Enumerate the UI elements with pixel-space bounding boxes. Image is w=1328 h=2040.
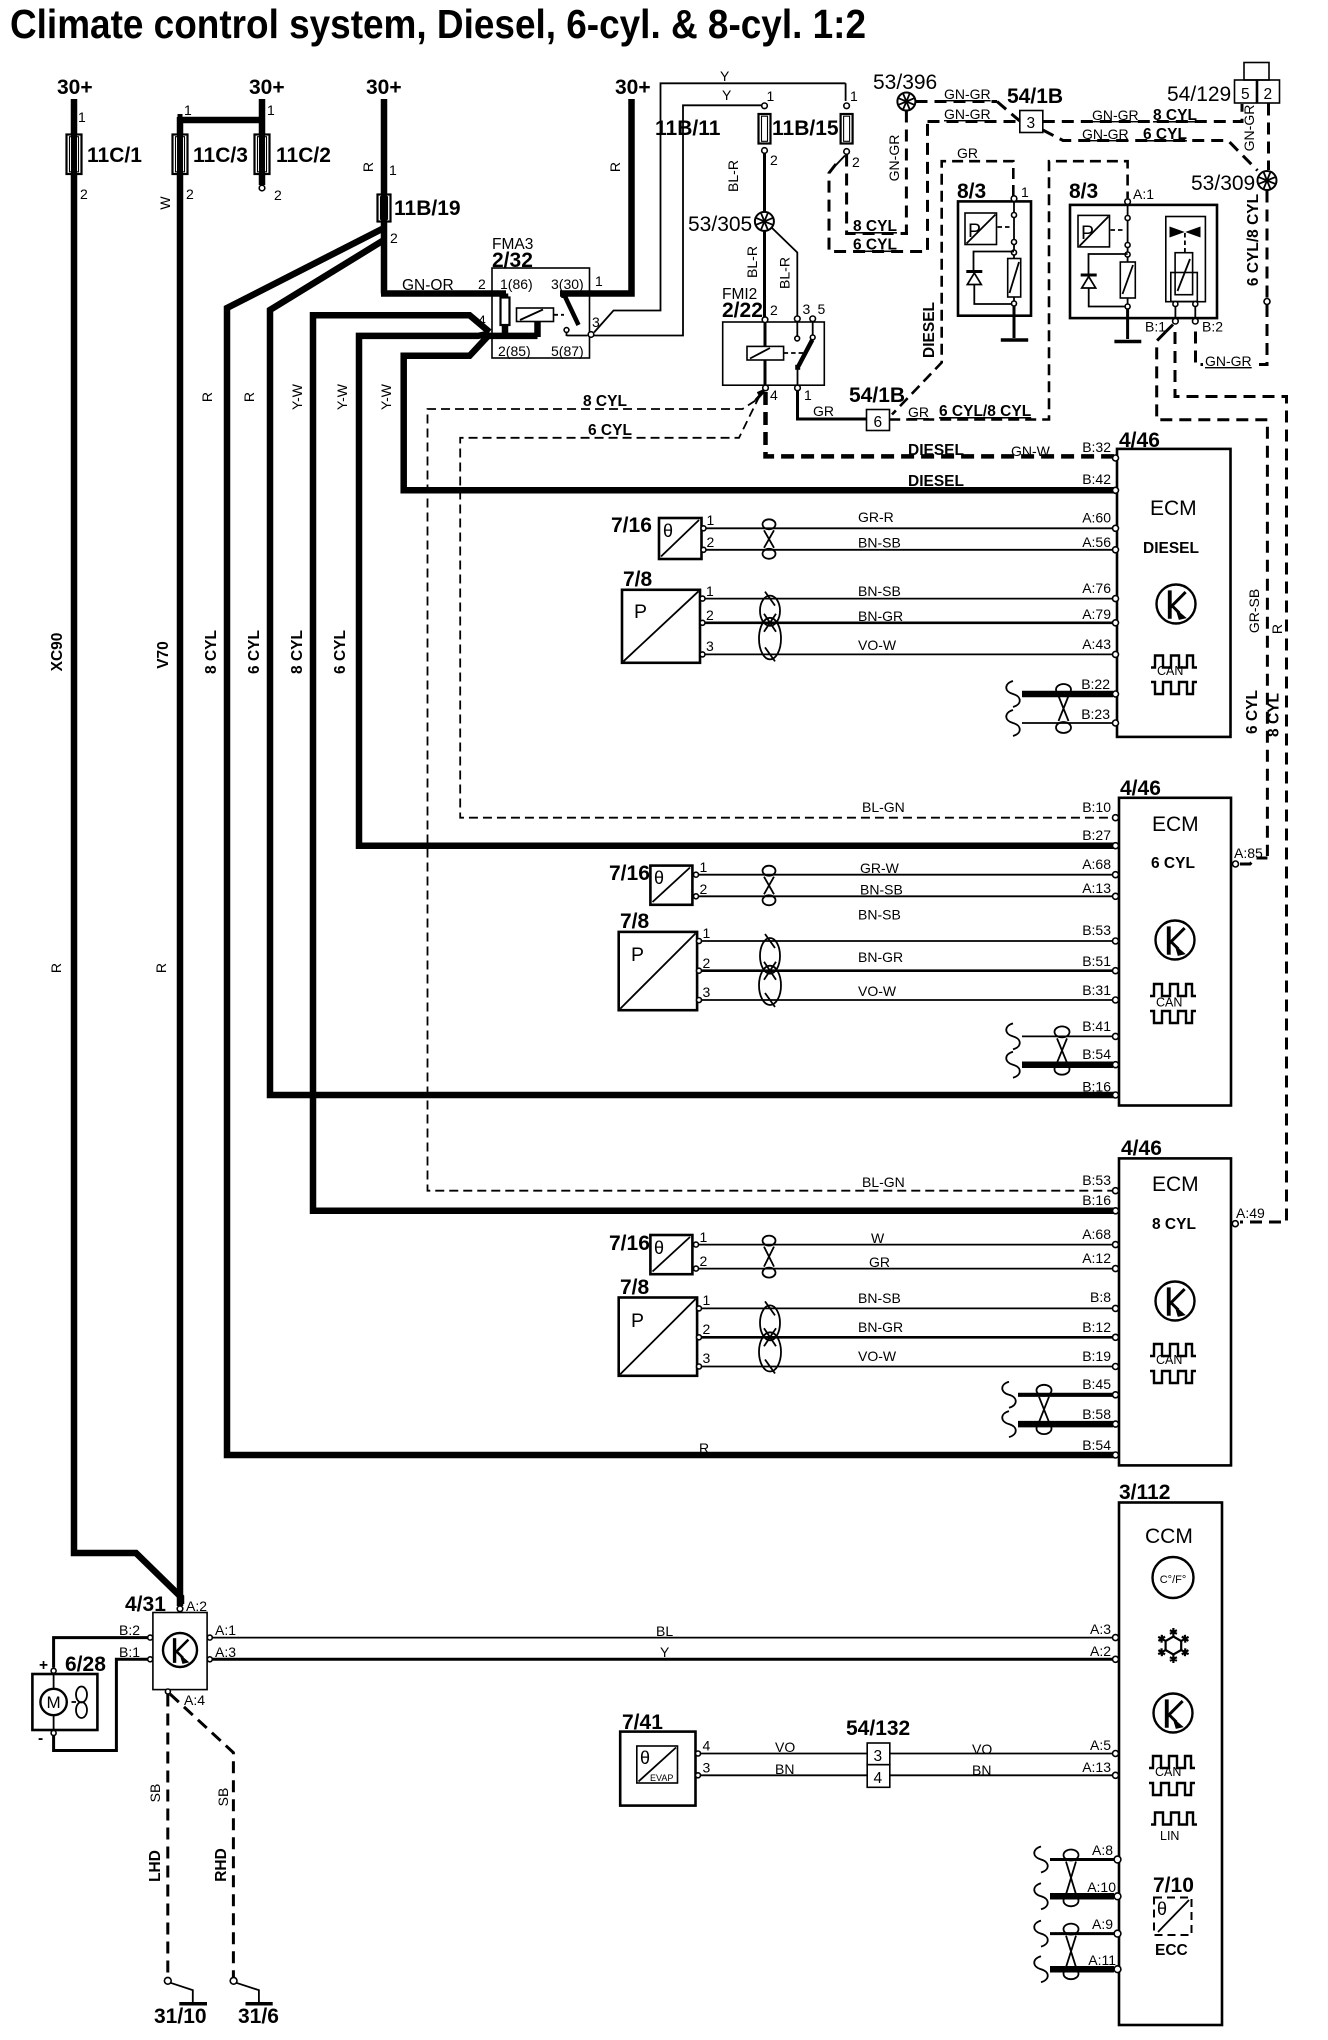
wire Y-W 6CYL: FMA3 pin 4 to ECM 6CYL B:27: [359, 334, 1114, 846]
svg-text:8 CYL: 8 CYL: [203, 630, 220, 674]
svg-text:11B/19: 11B/19: [394, 197, 461, 220]
svg-text:6 CYL: 6 CYL: [1151, 855, 1195, 872]
svg-text:1: 1: [595, 273, 603, 289]
pin B:19 of ECM 8cyl: [1113, 1364, 1119, 1370]
pin B:23 of ECM diesel: [1113, 720, 1119, 726]
svg-text:B:12: B:12: [1082, 1319, 1111, 1335]
8/3 clutch coil: [1120, 262, 1135, 298]
relay FMA3 switch contact: [564, 328, 569, 333]
svg-text:2: 2: [390, 230, 398, 246]
svg-text:5(87): 5(87): [551, 343, 584, 359]
svg-text:A:2: A:2: [186, 1598, 207, 1614]
relay FMA3 coil body: [534, 322, 541, 338]
svg-text:2: 2: [1264, 86, 1273, 103]
pin B:32 of ECM diesel: [1113, 455, 1119, 461]
svg-text:6 CYL: 6 CYL: [853, 237, 897, 254]
svg-text:Y: Y: [720, 68, 730, 84]
pin A:3 of 4/31: [207, 1657, 212, 1662]
relay FMA3 actuator dashed link: [554, 314, 565, 316]
FMI2 pin 3: [795, 316, 801, 322]
svg-text:53/309: 53/309: [1191, 172, 1255, 195]
svg-text:1: 1: [700, 1229, 708, 1245]
svg-text:2(85): 2(85): [498, 343, 531, 359]
pin B:54 of ECM 8cyl: [1113, 1452, 1119, 1458]
pin A:5 of CCM: [1113, 1751, 1119, 1757]
pin B:8 of ECM 8cyl: [1113, 1305, 1119, 1311]
svg-text:R: R: [153, 963, 169, 973]
svg-text:1: 1: [184, 102, 192, 118]
svg-text:B:8: B:8: [1090, 1289, 1111, 1305]
svg-text:A:10: A:10: [1087, 1879, 1116, 1895]
svg-text:3: 3: [874, 1748, 883, 1765]
svg-text:30+: 30+: [249, 76, 285, 99]
svg-text:2/22: 2/22: [722, 299, 763, 322]
svg-text:1: 1: [707, 512, 715, 528]
svg-text:30+: 30+: [615, 76, 651, 99]
svg-text:6 CYL: 6 CYL: [588, 422, 632, 439]
svg-text:1: 1: [700, 859, 708, 875]
LIN symbol in CCM: [1151, 1813, 1197, 1825]
wire GN-GR 8 CYL dashed from 54/1B-3 to 54/129: [1043, 104, 1242, 122]
wire SB LHD dashed from 4/31 A:4 to ground 31/10: [166, 1695, 169, 1978]
wire VO from 54/132 to CCM A:5: [890, 1753, 1113, 1755]
svg-text:2: 2: [186, 186, 194, 202]
svg-text:1: 1: [389, 162, 397, 178]
relay FMA3 switch blade: [561, 294, 568, 299]
svg-text:RHD: RHD: [213, 1848, 230, 1882]
svg-text:A:49: A:49: [1236, 1205, 1265, 1221]
pin B:1 of 8/3: [1173, 318, 1179, 324]
svg-text:2: 2: [707, 534, 715, 550]
svg-text:GN-GR: GN-GR: [944, 86, 991, 102]
svg-text:3: 3: [1027, 115, 1036, 132]
wire GN-GR 6 CYL dashed from 54/1B-3 to splice 53/309: [1043, 130, 1258, 171]
fan control module 4/31 box: [153, 1613, 207, 1690]
motor M symbol in 6/28: [53, 1674, 55, 1689]
svg-text:BL: BL: [656, 1623, 673, 1639]
wire GR from FMI2 pin 1 to connector 54/1B-6: [798, 391, 867, 419]
svg-text:A:68: A:68: [1082, 1226, 1111, 1242]
immobiliser symbol in ECM diesel: [1157, 585, 1196, 624]
svg-text:A:76: A:76: [1082, 580, 1111, 596]
svg-text:B:54: B:54: [1082, 1437, 1111, 1453]
svg-text:R: R: [699, 1440, 709, 1456]
pin A:49 of ECM 8cyl: [1232, 1221, 1238, 1227]
svg-text:BL-R: BL-R: [777, 257, 793, 289]
svg-text:θ: θ: [640, 1748, 650, 1768]
svg-text:GR: GR: [957, 145, 978, 161]
svg-text:2: 2: [700, 1253, 708, 1269]
immobiliser symbol in CCM: [1154, 1694, 1193, 1733]
svg-text:B:45: B:45: [1082, 1376, 1111, 1392]
svg-text:1: 1: [706, 583, 714, 599]
svg-text:BL-GN: BL-GN: [862, 1174, 905, 1190]
svg-text:ECC: ECC: [1155, 1942, 1188, 1959]
svg-text:54/1B: 54/1B: [1007, 85, 1063, 108]
pin 3 of 7/41: [696, 1773, 701, 1778]
8/3 ground lead: [1126, 309, 1129, 339]
svg-text:SB: SB: [147, 1784, 163, 1803]
svg-text:B:51: B:51: [1082, 953, 1111, 969]
svg-text:XC90: XC90: [49, 633, 66, 672]
svg-text:11C/2: 11C/2: [276, 144, 331, 167]
svg-text:6/28: 6/28: [65, 1653, 106, 1676]
svg-text:31/10: 31/10: [154, 2005, 207, 2028]
power stage symbol in 4/31: [163, 1633, 197, 1667]
8/3 internal wire and pins: [1127, 204, 1129, 262]
svg-text:B:16: B:16: [1082, 1192, 1111, 1208]
svg-text:VO-W: VO-W: [858, 637, 897, 653]
svg-text:A:60: A:60: [1082, 510, 1111, 526]
wire BN-SB from 7/8 to ECM diesel A:76: [705, 598, 1113, 600]
svg-text:11C/1: 11C/1: [87, 144, 142, 167]
svg-text:EVAP: EVAP: [650, 1773, 673, 1783]
wire stub to CCM A:11: [1034, 1956, 1048, 1982]
svg-text:3: 3: [703, 984, 711, 1000]
svg-text:5: 5: [818, 301, 826, 317]
wire CAN stub to ECM 6cyl B:41: [1006, 1023, 1020, 1049]
pin B:16 of ECM 6cyl: [1113, 1092, 1119, 1098]
svg-text:3: 3: [703, 1760, 711, 1776]
fuse 11B/19: [378, 195, 391, 222]
svg-text:A:11: A:11: [1088, 1952, 1116, 1968]
svg-text:A:4: A:4: [184, 1692, 205, 1708]
8/3 solenoid valve assembly: [1166, 217, 1206, 302]
wire BN-SB from 7/8 to ECM 6cyl B:53: [702, 940, 1114, 942]
svg-text:30+: 30+: [57, 76, 93, 99]
svg-text:BN-SB: BN-SB: [858, 1290, 901, 1306]
svg-text:2: 2: [770, 302, 778, 318]
pin B:1 of 4/31: [148, 1657, 153, 1662]
wire 30+ rail 3 (R) into fuse 11B/19: [381, 99, 388, 194]
svg-text:BN-GR: BN-GR: [858, 1319, 903, 1335]
connector 54/1B terminal 3: [1020, 111, 1043, 133]
svg-text:Climate control system, Diesel: Climate control system, Diesel, 6-cyl. &…: [10, 1, 866, 47]
svg-text:3/112: 3/112: [1119, 1481, 1170, 1504]
ground terminal 31/10: [164, 1977, 171, 1984]
pin B:41 of ECM 6cyl: [1113, 1033, 1119, 1039]
pin A:68 of ECM 6cyl: [1113, 872, 1119, 878]
pin A:3 of CCM: [1113, 1635, 1119, 1641]
svg-text:A:68: A:68: [1082, 856, 1111, 872]
svg-text:ECM: ECM: [1150, 497, 1197, 520]
pin B:53 of ECM 6cyl: [1113, 938, 1119, 944]
8/3 pressure sensor: [1078, 215, 1110, 247]
svg-text:GR: GR: [813, 403, 834, 419]
dashed GR supply into 8/3 6cyl/8cyl from 54/1B-6: [889, 161, 1127, 419]
pin 4 of 7/41: [696, 1751, 701, 1756]
fuse 11C/3: [173, 135, 188, 175]
wire VO from 7/41 to 54/132: [701, 1753, 868, 1755]
svg-text:2: 2: [852, 154, 860, 170]
svg-text:θ: θ: [654, 868, 664, 888]
svg-text:LIN: LIN: [1160, 1829, 1179, 1843]
svg-text:7/16: 7/16: [609, 1232, 650, 1255]
svg-text:θ: θ: [654, 1238, 664, 1258]
fan blade symbol in 6/28: [72, 1701, 77, 1703]
svg-text:3(30): 3(30): [551, 276, 584, 292]
wire BN-SB from 7/16 to ECM 6cyl A:13: [699, 895, 1114, 897]
fuse 11C/2: [255, 135, 270, 175]
svg-text:P: P: [631, 944, 644, 966]
wire BN-GR from 7/8 to ECM diesel A:79: [705, 621, 1113, 624]
twisted pair 7/16 8cyl: [763, 1236, 776, 1246]
wire stub right of 53/396: [915, 100, 927, 103]
FMI2 switch blade from pin 5: [812, 322, 814, 335]
wire R/8CYL dashed from B:1 to ECM 8CYL A:49: [1175, 332, 1287, 1222]
pin B:16 of ECM 8cyl: [1113, 1208, 1119, 1214]
wire BN-GR from 7/8 to ECM 8cyl B:12: [702, 1336, 1114, 1339]
twisted pair CAN at ECM 6cyl: [1055, 1026, 1070, 1037]
svg-text:GN-W: GN-W: [1011, 443, 1051, 459]
wire 8 CYL dashed from 11B/15 pin 2 via 53/396: [847, 155, 908, 234]
svg-text:53/305: 53/305: [688, 213, 752, 236]
svg-text:1: 1: [267, 102, 275, 118]
wire Y from FMA3 pin 3 to fuse 11B/15: [594, 83, 846, 332]
svg-text:A:5: A:5: [1090, 1737, 1111, 1753]
svg-text:R: R: [48, 963, 64, 973]
svg-text:DIESEL: DIESEL: [921, 302, 938, 358]
svg-text:1: 1: [703, 925, 711, 941]
8/3 diesel suppression diode: [974, 252, 1015, 272]
pin B:54 of ECM 6cyl: [1113, 1062, 1119, 1068]
svg-text:A:85: A:85: [1234, 845, 1263, 861]
pin A:13 of ECM 6cyl: [1113, 893, 1119, 899]
svg-text:BN: BN: [775, 1761, 794, 1777]
wire GN-GR dashed lower branch into 54/1B-3: [928, 120, 1020, 123]
svg-text:P: P: [631, 1310, 644, 1332]
svg-text:8 CYL: 8 CYL: [289, 630, 306, 674]
svg-text:θ: θ: [1157, 1899, 1167, 1919]
svg-text:-: -: [38, 1730, 43, 1747]
pin B:2 of 4/31: [148, 1635, 153, 1640]
svg-text:CAN: CAN: [1156, 996, 1182, 1010]
svg-text:R: R: [1269, 624, 1285, 634]
svg-text:54/129: 54/129: [1167, 83, 1231, 106]
wire CAN stub to ECM 8cyl B:45: [1002, 1382, 1016, 1408]
FMI2 pin 5: [810, 316, 816, 322]
svg-text:1: 1: [703, 1292, 711, 1308]
wire 4-input to relay FMA3 pin 4: [488, 333, 538, 340]
svg-text:B:1: B:1: [1145, 319, 1166, 335]
svg-text:8 CYL: 8 CYL: [1152, 1216, 1196, 1233]
svg-text:B:2: B:2: [1202, 319, 1223, 335]
6/28 - terminal: [51, 1731, 56, 1736]
svg-text:A:3: A:3: [1090, 1621, 1111, 1637]
svg-text:BN-GR: BN-GR: [858, 949, 903, 965]
wire VO-W from 7/8 to ECM diesel A:43: [705, 653, 1113, 655]
svg-text:GN-GR: GN-GR: [1205, 353, 1252, 369]
pin A:13 of CCM: [1113, 1772, 1119, 1778]
FMI2 pin 4: [763, 385, 769, 391]
pin B:53 of ECM 8cyl: [1113, 1188, 1119, 1194]
ground at 8/3 compressor: [1114, 340, 1141, 344]
pin B:51 of ECM 6cyl: [1113, 968, 1119, 974]
svg-text:A:8: A:8: [1092, 1842, 1113, 1858]
svg-text:1(86): 1(86): [500, 276, 533, 292]
ground terminal 31/6: [230, 1977, 237, 1984]
svg-text:A:12: A:12: [1082, 1250, 1111, 1266]
wire GR-R from 7/16 to ECM diesel A:60: [706, 527, 1113, 529]
svg-text:B:27: B:27: [1082, 827, 1111, 843]
svg-text:4/46: 4/46: [1121, 1137, 1162, 1160]
wire from 4/31 B:2 to fan motor 6/28 +: [54, 1638, 148, 1668]
svg-text:BL-GN: BL-GN: [862, 799, 905, 815]
svg-text:B:31: B:31: [1082, 982, 1111, 998]
pin A:9 of CCM: [1114, 1930, 1121, 1937]
svg-text:Y-W: Y-W: [289, 383, 305, 410]
wire GR-SB/6CYL dashed from B:1 to ECM 6CYL A:85: [1157, 332, 1268, 856]
svg-text:CAN: CAN: [1156, 1353, 1182, 1367]
pin A:56 of ECM diesel: [1113, 547, 1119, 553]
CAN symbol in ECM diesel: [1151, 656, 1197, 668]
8/3 valve pins to B:1 B:2: [1173, 302, 1178, 307]
svg-text:GR-SB: GR-SB: [1246, 589, 1262, 633]
svg-text:3: 3: [706, 638, 714, 654]
fuse 11C/1: [67, 135, 82, 175]
8/3 diesel ground lead: [1013, 306, 1016, 338]
fuse 11B/11: [762, 103, 768, 109]
svg-text:M: M: [47, 1693, 61, 1712]
svg-text:7/8: 7/8: [620, 1276, 650, 1299]
svg-text:8 CYL: 8 CYL: [583, 393, 627, 410]
svg-text:6 CYL: 6 CYL: [1244, 690, 1261, 734]
relay FMA3 coil branch: [502, 294, 509, 337]
svg-text:R: R: [199, 392, 215, 402]
svg-text:53/396: 53/396: [873, 71, 937, 94]
svg-text:11B/15: 11B/15: [772, 117, 839, 140]
svg-text:DIESEL: DIESEL: [1143, 540, 1199, 557]
svg-text:VO: VO: [775, 1739, 795, 1755]
svg-text:A:79: A:79: [1082, 606, 1111, 622]
relay FMA3 2/32 box: [492, 268, 590, 358]
wire VO-W from 7/8 to ECM 8cyl B:19: [702, 1366, 1114, 1368]
svg-text:1: 1: [804, 387, 812, 403]
svg-text:2: 2: [478, 276, 486, 292]
svg-text:7/16: 7/16: [611, 514, 652, 537]
svg-text:B:16: B:16: [1082, 1079, 1111, 1095]
wire V70 rail from fuse 11C/3 down to 4/31 A:2: [177, 174, 184, 1606]
svg-text:BL-R: BL-R: [744, 246, 760, 278]
svg-text:W: W: [871, 1230, 885, 1246]
pin B:45 of ECM 8cyl: [1113, 1392, 1119, 1398]
FMI2 pin 1: [795, 385, 801, 391]
twisted pair at CCM A:9/A:11: [1064, 1924, 1079, 1935]
C/F temperature icon in CCM: [1153, 1557, 1194, 1598]
wire DIESEL dashed from FMI2 pin 4 to ECM diesel B:32 (GN-W): [766, 392, 1115, 456]
twisted pair CAN at ECM diesel: [1056, 684, 1071, 695]
8/3 diesel internal wire and pins: [1013, 201, 1015, 258]
pin A:43 of ECM diesel: [1113, 651, 1119, 657]
svg-text:8/3: 8/3: [1069, 180, 1098, 203]
pin B:58 of ECM 8cyl: [1113, 1421, 1119, 1427]
pin A:60 of ECM diesel: [1113, 525, 1119, 531]
svg-text:CAN: CAN: [1157, 664, 1183, 678]
wire SB RHD dashed from 4/31 A:4 to ground 31/6: [170, 1694, 233, 1977]
svg-text:3: 3: [703, 1350, 711, 1366]
8/3 pin A:1: [1125, 199, 1131, 205]
wire from 11B/19 pin 2 down to GN-OR relay feed: [381, 221, 388, 294]
twisted bundle 7/8 6cyl: [760, 938, 780, 974]
svg-text:B:53: B:53: [1082, 1172, 1111, 1188]
svg-text:31/6: 31/6: [238, 2005, 279, 2028]
svg-text:GR: GR: [869, 1254, 890, 1270]
pin A:12 of ECM 8cyl: [1113, 1266, 1119, 1272]
svg-text:11C/3: 11C/3: [193, 144, 248, 167]
pin A:79 of ECM diesel: [1113, 620, 1119, 626]
svg-text:GN-GR: GN-GR: [1092, 107, 1139, 123]
wire Y-W 8CYL: FMA3 pin 4 to ECM 8CYL B:16: [313, 315, 1114, 1211]
twisted pair at CCM A:8/A:10: [1064, 1850, 1079, 1861]
svg-text:V70: V70: [155, 641, 172, 669]
svg-text:7/16: 7/16: [609, 862, 650, 885]
svg-text:GN-GR: GN-GR: [1082, 126, 1129, 142]
wire 30+ rail 2 feed bar to fuses 11C/3 and 11C/2: [259, 99, 266, 134]
svg-text:8 CYL: 8 CYL: [1153, 107, 1197, 124]
svg-text:A:13: A:13: [1082, 1759, 1111, 1775]
wire 8 CYL R: 11B/19 pin2 to ECM 8CYL B:54: [227, 228, 1114, 1455]
wire VO-W from 7/8 to ECM 6cyl B:31: [702, 999, 1114, 1001]
svg-text:Y-W: Y-W: [378, 383, 394, 410]
wire 30+ rail 1 (R, XC90) down to fan relay 4/31: [74, 99, 181, 1604]
twisted pair 7/16 6cyl: [763, 866, 776, 876]
6/28 + terminal: [51, 1668, 56, 1673]
FMI2 contact from pin 3: [796, 322, 798, 336]
wire GN-GR dashed 6CYL/8CYL from 53/309 down: [1266, 191, 1269, 299]
svg-text:B:32: B:32: [1082, 439, 1111, 455]
svg-text:P: P: [634, 601, 647, 623]
snowflake A/C icon in CCM: [1166, 1637, 1182, 1655]
svg-text:2: 2: [80, 186, 88, 202]
svg-text:1: 1: [850, 88, 858, 104]
wire GR from 7/16 to ECM 8cyl A:12: [699, 1268, 1114, 1270]
FMI2 pin 2: [762, 317, 768, 323]
svg-text:A:1: A:1: [1133, 186, 1154, 202]
svg-text:54/132: 54/132: [846, 1717, 910, 1740]
wire BL-R from 53/305 to FMI2 coil pin 2: [763, 231, 766, 317]
svg-text:DIESEL: DIESEL: [908, 442, 964, 459]
svg-text:8 CYL: 8 CYL: [853, 218, 897, 235]
svg-text:4: 4: [874, 1770, 883, 1787]
pin B:22 of ECM diesel: [1113, 691, 1119, 697]
svg-text:BN-SB: BN-SB: [858, 907, 901, 923]
wire CAN-L stub to ECM diesel B:23: [1006, 710, 1020, 736]
svg-text:3: 3: [803, 301, 811, 317]
wire BL from 4/31 A:1 to CCM A:3: [213, 1637, 1114, 1639]
svg-text:BN-SB: BN-SB: [858, 583, 901, 599]
svg-text:2: 2: [770, 152, 778, 168]
FMI2 coil: [764, 323, 767, 347]
svg-text:GR-R: GR-R: [858, 509, 894, 525]
pin B:12 of ECM 8cyl: [1113, 1334, 1119, 1340]
svg-text:W: W: [157, 196, 173, 210]
svg-text:A:56: A:56: [1082, 534, 1111, 550]
pin A:68 of ECM 8cyl: [1113, 1242, 1119, 1248]
pin A:8 of CCM: [1114, 1856, 1121, 1863]
wire BN from 54/132 to CCM A:13: [890, 1774, 1113, 1776]
svg-text:7/10: 7/10: [1153, 1874, 1194, 1897]
svg-text:GN-GR: GN-GR: [886, 135, 902, 182]
svg-text:4: 4: [703, 1738, 711, 1754]
CAN symbol in ECM 8cyl: [1150, 1344, 1196, 1356]
wire GR-W from 7/16 to ECM 6cyl A:68: [699, 874, 1114, 876]
CAN symbol in CCM: [1149, 1756, 1195, 1768]
wire Y from 4/31 A:3 to CCM A:2: [213, 1658, 1114, 1661]
dashed GR supply box around 8/3 diesel: [892, 161, 1013, 414]
wire 8 CYL dashed from FMI2 pin 4 to ECM 8CYL B:53 (BL-GN): [428, 401, 1115, 1191]
svg-text:B:19: B:19: [1082, 1348, 1111, 1364]
svg-text:7/8: 7/8: [623, 568, 653, 591]
